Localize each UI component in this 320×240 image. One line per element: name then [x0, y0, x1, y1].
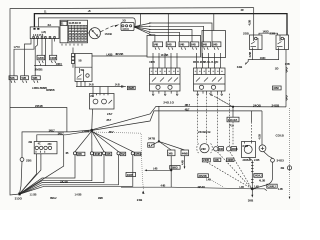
wire junction down: [232, 107, 234, 117]
svg-text:4.4B: 4.4B: [181, 160, 184, 165]
svg-text:COI.B: COI.B: [276, 134, 285, 138]
connector row box 1: [153, 42, 163, 47]
connector housing enclosure right: [202, 31, 225, 58]
wires housing to S1: [153, 53, 177, 68]
svg-text:5/4B: 5/4B: [202, 44, 207, 47]
wire ground line bottom: [121, 187, 252, 189]
node junction3: [170, 169, 172, 171]
svg-text:T/2B: T/2B: [10, 77, 15, 80]
component box 44NB: [181, 150, 189, 156]
svg-text:4/B.7: 4/B.7: [185, 104, 191, 107]
lamp L4: [117, 152, 126, 156]
wire junction3 down: [170, 170, 172, 187]
dashed ignition feed arrow: [101, 24, 120, 32]
label boxed under C3: [227, 158, 234, 162]
svg-text:G29/B.2: G29/B.2: [268, 186, 277, 189]
door motor M1: [197, 143, 213, 153]
svg-text:34O3: 34O3: [277, 159, 285, 163]
svg-text:4L5B: 4L5B: [249, 52, 252, 58]
clock / ignition switch symbol: [88, 28, 101, 39]
connector C208a: [37, 55, 45, 63]
svg-text:34B: 34B: [237, 65, 243, 69]
wire line2 drop to motor M4: [250, 111, 252, 122]
control unit 2A box: [30, 27, 59, 39]
svg-text:24O4.2: 24O4.2: [254, 175, 262, 178]
wire staircase S1: [136, 23, 213, 42]
wire fan to L4: [92, 131, 119, 152]
wires M5 pins up: [93, 87, 108, 94]
svg-text:5/4B: 5/4B: [167, 44, 172, 47]
connector T3: [32, 76, 41, 83]
svg-text:24O.1O: 24O.1O: [163, 101, 174, 105]
wire junction down arrow: [251, 189, 253, 195]
wire pinA5 to C208b: [51, 38, 53, 55]
svg-text:3O: 3O: [122, 18, 126, 22]
wire junction2 harness arrow: [152, 141, 159, 145]
inline connector strip: [72, 48, 75, 68]
comp C5 motor circle: [259, 145, 266, 152]
label boxed under C2: [214, 158, 221, 162]
wire S1 drop to junction2: [158, 106, 160, 141]
staircase arrowheads: [149, 22, 152, 35]
dotted ray right: [92, 132, 144, 190]
connector row box 3: [179, 42, 189, 47]
door motor unit M13 left: [34, 142, 57, 154]
svg-text:24OB2.B: 24OB2.B: [198, 130, 211, 134]
svg-text:4L.5B: 4L.5B: [259, 179, 265, 182]
svg-text:24OB.B: 24OB.B: [243, 159, 251, 162]
svg-text:3OSB/B: 3OSB/B: [46, 89, 55, 92]
wire 34B box down to junction3: [170, 156, 172, 171]
wire K3 feed right: [92, 55, 147, 57]
wire M13 ground b: [20, 154, 41, 194]
wires K3 to bus: [77, 81, 85, 86]
svg-text:T/2B: T/2B: [32, 77, 37, 80]
wire down from 23B to ground fan: [20, 161, 23, 193]
wire harness left at junction3: [147, 169, 172, 171]
svg-text:L4SB: L4SB: [107, 53, 113, 56]
svg-text:34B: 34B: [106, 153, 110, 156]
svg-text:34M: 34M: [242, 144, 248, 148]
wire ray left line1: [22, 130, 92, 158]
node junction2: [158, 140, 160, 142]
svg-text:1.7YU: 1.7YU: [14, 46, 21, 49]
svg-text:74Z: 74Z: [121, 153, 125, 156]
wire relay link bottom: [247, 50, 279, 64]
svg-text:24B: 24B: [137, 198, 143, 202]
door switch assembly S2: [194, 68, 226, 91]
svg-text:345Z4B: 345Z4B: [199, 175, 207, 178]
wire pinA4 long drop: [44, 38, 46, 66]
relay K3 center: [75, 54, 92, 82]
wire bus B1 (thick 30-feed): [34, 14, 287, 35]
svg-text:25C: 25C: [48, 143, 52, 146]
shielded chain wire M4 to ground junction: [249, 158, 254, 189]
wire M1 to ground dashed: [207, 162, 252, 188]
border / power+ground rail frame: [10, 8, 254, 195]
pin V-marks under connector row: [155, 47, 219, 49]
component box 34B: [168, 150, 176, 156]
svg-text:L4B: L4B: [240, 186, 245, 189]
wire staircase S4: [136, 27, 180, 42]
wire ray to line2: [92, 111, 262, 130]
pin stubs below S1: [153, 91, 177, 94]
wire staircase S5: [136, 28, 155, 42]
wire ground bracket 2: [20, 155, 92, 194]
connector T1: [9, 76, 17, 83]
svg-text:1.4B: 1.4B: [254, 186, 259, 189]
wire junction right stub: [252, 189, 266, 191]
wire bus B2: [38, 18, 135, 27]
svg-text:21B.9B: 21B.9B: [35, 105, 43, 108]
svg-text:23B: 23B: [26, 158, 32, 162]
svg-text:C/RB: C/RB: [149, 61, 155, 64]
dashed mech links into junction: [209, 94, 232, 107]
label G29 boxed: [267, 184, 277, 188]
svg-text:3B.7: 3B.7: [109, 131, 114, 134]
svg-text:2M2B: 2M2B: [35, 67, 44, 71]
svg-text:34B: 34B: [168, 152, 172, 155]
wire fan to L1: [75, 131, 92, 152]
wire ground bracket 3: [20, 155, 104, 194]
wire branch bus1 to battery fan: [135, 14, 140, 27]
door motor unit M4: [242, 142, 256, 158]
svg-text:34B3: 34B3: [273, 87, 279, 90]
wire h-bus y86.5: [76, 86, 121, 88]
svg-text:4 15 X: 4 15 X: [122, 28, 129, 31]
svg-text:3M2B: 3M2B: [128, 87, 134, 90]
node junction line1 right: [232, 106, 234, 108]
door lock unit M5: [90, 94, 115, 110]
connector C208b: [50, 55, 57, 63]
wire M5 down to fan: [91, 109, 94, 129]
wire ground bracket 1: [20, 155, 75, 194]
svg-text:1.1 SB: 1.1 SB: [30, 193, 37, 196]
svg-text:14.B: 14.B: [115, 84, 120, 87]
switch comp C3: [226, 147, 237, 151]
svg-text:143O: 143O: [260, 57, 266, 60]
svg-text:2.OB: 2.OB: [254, 159, 260, 162]
lamp L2: [90, 152, 101, 156]
label 24OA2.B boxed: [227, 117, 239, 122]
svg-text:34B.7: 34B.7: [49, 130, 56, 133]
connector row box 5: [202, 42, 211, 47]
wire left feed from rail: [10, 108, 67, 132]
wire fan to L5: [92, 131, 133, 151]
svg-text:L4SB.LBSB/B: L4SB.LBSB/B: [32, 87, 47, 90]
svg-text:24OB: 24OB: [272, 103, 281, 107]
svg-text:5/4B: 5/4B: [213, 44, 218, 47]
node ground junction right: [251, 187, 254, 190]
svg-text:14/3O: 14/3O: [263, 31, 269, 34]
wire drop to relay K1 from top rail: [253, 8, 255, 35]
wire pinA2 to connector T3: [35, 38, 37, 76]
fuse box 11A: [60, 20, 88, 45]
wire relay K2 output column: [286, 50, 287, 107]
svg-text:34B.7: 34B.7: [58, 133, 65, 136]
bottom component row: lamp L1: [73, 152, 85, 156]
svg-text:1/D: 1/D: [275, 67, 279, 70]
switch comp C2: [214, 147, 224, 151]
label 139BO boxed: [170, 166, 180, 170]
wires housing to S2: [197, 53, 221, 68]
svg-text:24OB: 24OB: [203, 159, 209, 162]
dashed wires from S2 down: [196, 94, 198, 143]
svg-text:2B.7: 2B.7: [106, 119, 111, 122]
V marks under S1: [152, 94, 178, 96]
svg-text:11 2B 3O 15: 11 2B 3O 15: [69, 22, 82, 25]
wire pinA0 to connector T2: [25, 38, 32, 76]
svg-text:37B4: 37B4: [135, 153, 141, 156]
svg-text:C2O8: C2O8: [50, 57, 57, 60]
svg-text:P.15: P.15: [230, 125, 235, 128]
svg-text:1.4 SB: 1.4 SB: [75, 193, 82, 196]
wire M13 ground a: [20, 154, 37, 194]
svg-text:1.4B: 1.4B: [278, 188, 283, 191]
wire pinA1 to connector T1: [14, 38, 34, 76]
connector circle 23B: [20, 158, 24, 162]
battery / supply box 30: [121, 23, 134, 32]
wire pinA3 to C208a: [41, 38, 43, 55]
wire stub housing feed: [213, 14, 215, 31]
connector T2: [21, 76, 29, 83]
svg-text:347B: 347B: [148, 137, 156, 141]
svg-text:9/9B: 9/9B: [98, 197, 103, 200]
relay K1: [250, 35, 263, 50]
svg-text:T/2B: T/2B: [21, 77, 26, 80]
wire junction2 to box 34B: [159, 141, 171, 150]
wire C2 ground dashed: [218, 152, 252, 188]
node ground junction 31: [18, 193, 21, 196]
wire C5 down via connector: [254, 152, 275, 189]
wire pinA6 stub: [54, 38, 56, 41]
wire relay K1 output: [252, 50, 254, 60]
dotted diag into ground line: [210, 180, 224, 188]
svg-text:34B: 34B: [214, 159, 218, 162]
wire bridge between relays: [259, 33, 278, 35]
pin stubs below S2: [197, 91, 221, 94]
dashed wire to comp3: [232, 122, 234, 145]
svg-text:313O: 313O: [15, 196, 23, 200]
svg-text:+B: +B: [88, 10, 91, 13]
wire fan to L2: [91, 131, 93, 152]
svg-text:5/4B: 5/4B: [153, 44, 158, 47]
V marks under S2: [197, 94, 223, 96]
svg-text:24.B: 24.B: [89, 84, 94, 87]
svg-text:38/4.SB: 38/4.SB: [115, 53, 123, 56]
label 345Z4.B boxed: [198, 174, 209, 178]
svg-text:34B: 34B: [78, 153, 82, 156]
wire ray to line1: [92, 106, 286, 130]
wire h-link under C208: [34, 65, 62, 67]
svg-text:139BO: 139BO: [170, 167, 177, 170]
svg-text:14 LSB: 14 LSB: [161, 54, 169, 57]
label 24OB boxed on dotted: [126, 172, 136, 176]
svg-text:24OB: 24OB: [253, 103, 262, 107]
svg-text:1.5B: 1.5B: [285, 63, 290, 66]
svg-text:5B: 5B: [79, 60, 82, 63]
relay K2: [276, 35, 289, 50]
label 3483 boxed: [273, 86, 282, 90]
label 24O4.2 boxed: [254, 174, 263, 178]
svg-text:34DB: 34DB: [227, 159, 233, 162]
wire staircase S2: [136, 26, 204, 42]
svg-text:34DB: 34DB: [232, 148, 238, 151]
connector row box 6: [212, 42, 221, 47]
connector row box 2: [166, 42, 175, 47]
label boxed junction2: [148, 143, 154, 148]
wire junction2 to box 44NB: [159, 141, 185, 150]
dotted right wire column: [287, 108, 291, 199]
node central fan junction: [90, 129, 93, 132]
label 3M2B boxed: [127, 86, 135, 90]
inline connector symbol: [121, 85, 126, 87]
wire line2 drop to comp C5: [261, 111, 263, 145]
svg-text:2.B.7: 2.B.7: [107, 113, 113, 116]
svg-text:34B: 34B: [219, 148, 223, 151]
wire C3 ground dashed: [230, 152, 252, 189]
svg-text:4B: 4B: [65, 152, 68, 155]
svg-text:4C: 4C: [38, 143, 41, 146]
wire drop bus1 to connector row box 2: [167, 14, 169, 42]
label 24OB boxed under M1: [202, 158, 210, 162]
wire ground bracket 5: [20, 155, 133, 194]
svg-text:44NB: 44NB: [182, 152, 188, 155]
svg-text:4.4B: 4.4B: [161, 185, 166, 188]
svg-text:4/34B: 4/34B: [94, 153, 100, 156]
wire ray left line2: [37, 131, 92, 142]
lamp L3: [102, 152, 111, 156]
connector row box 4: [190, 42, 199, 47]
svg-text:1 2 3 4 5 6: 1 2 3 4 5 6: [33, 34, 44, 37]
svg-text:1SOB: 1SOB: [105, 32, 112, 36]
wire ground bracket 4: [20, 155, 119, 194]
svg-text:L4B: L4B: [153, 168, 158, 171]
connector housing enclosure left: [147, 35, 201, 57]
wire right vert 63.7 ground: [20, 135, 64, 194]
svg-text:14B.5: 14B.5: [56, 63, 63, 66]
svg-text:4L5B: 4L5B: [249, 20, 252, 26]
svg-text:C2O8: C2O8: [38, 57, 45, 60]
svg-text:3I/B: 3I/B: [248, 198, 254, 202]
svg-text:4R: 4R: [241, 9, 244, 12]
lamp L5: [131, 152, 141, 156]
wire staircase S3: [136, 27, 193, 42]
svg-text:2SB: 2SB: [243, 31, 250, 35]
svg-text:5/4B: 5/4B: [180, 44, 185, 47]
node battery fan point: [134, 26, 136, 28]
svg-text:5/4B: 5/4B: [191, 44, 196, 47]
svg-text:33O.5B: 33O.5B: [60, 180, 68, 183]
wire fan to L3: [92, 131, 104, 152]
wire below 44NB: [184, 156, 186, 167]
svg-text:4B.7: 4B.7: [185, 109, 190, 112]
door switch assembly S1: [150, 68, 181, 91]
svg-text:3M/L2: 3M/L2: [50, 197, 57, 200]
svg-text:24OB: 24OB: [127, 174, 133, 177]
svg-text:4.OB: 4.OB: [259, 134, 262, 140]
svg-text:24M: 24M: [201, 148, 205, 151]
svg-text:345.3O: 345.3O: [198, 186, 206, 189]
